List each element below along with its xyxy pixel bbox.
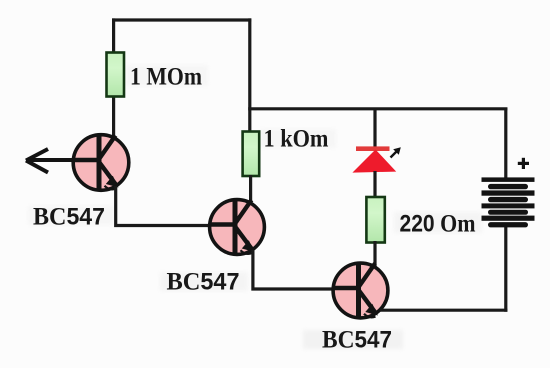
transistor Q2 [210,200,265,255]
touch input arrow (Q1 base) [26,149,74,173]
wire: left vertical from top wire down to R1 [112,18,115,54]
label battery plus [518,158,529,169]
svg-text:BC547: BC547 [33,204,105,231]
wire: R3 bottom to Q3 collector [373,241,376,268]
svg-text:1 MOm: 1 MOm [130,64,202,91]
LED D1 [352,146,400,172]
battery B1 [482,177,535,227]
wire: Q1 emitter down and right to Q2 base [116,186,210,226]
svg-text:1 kOm: 1 kOm [264,126,329,153]
wire: Q3 emitter to battery minus [380,309,507,312]
wire: node A vertical down to R2 [248,18,251,133]
wire: LED cathode to R3 [373,171,376,198]
transistor Q1 [73,135,129,191]
svg-text:BC547: BC547 [322,327,392,354]
wire: rail to LED anode [373,108,376,149]
wire: battery minus vertical [504,226,507,312]
wire: top rail node A to battery + [248,107,507,110]
wire: Q2 emitter down and right to Q3 base [253,250,334,289]
wire: R1 bottom to Q1 collector [112,95,115,137]
wire: battery plus vertical [504,108,507,180]
svg-text:220 Om: 220 Om [400,211,476,238]
resistor R1 [107,53,125,97]
transistor Q3 [333,263,388,318]
resistor R3 [366,197,384,243]
svg-text:BC547: BC547 [167,269,240,296]
wire: top loop horizontal (R1 top to node A) [112,18,251,21]
wire: R2 bottom to Q2 collector [249,175,252,205]
resistor R2 [243,132,260,177]
